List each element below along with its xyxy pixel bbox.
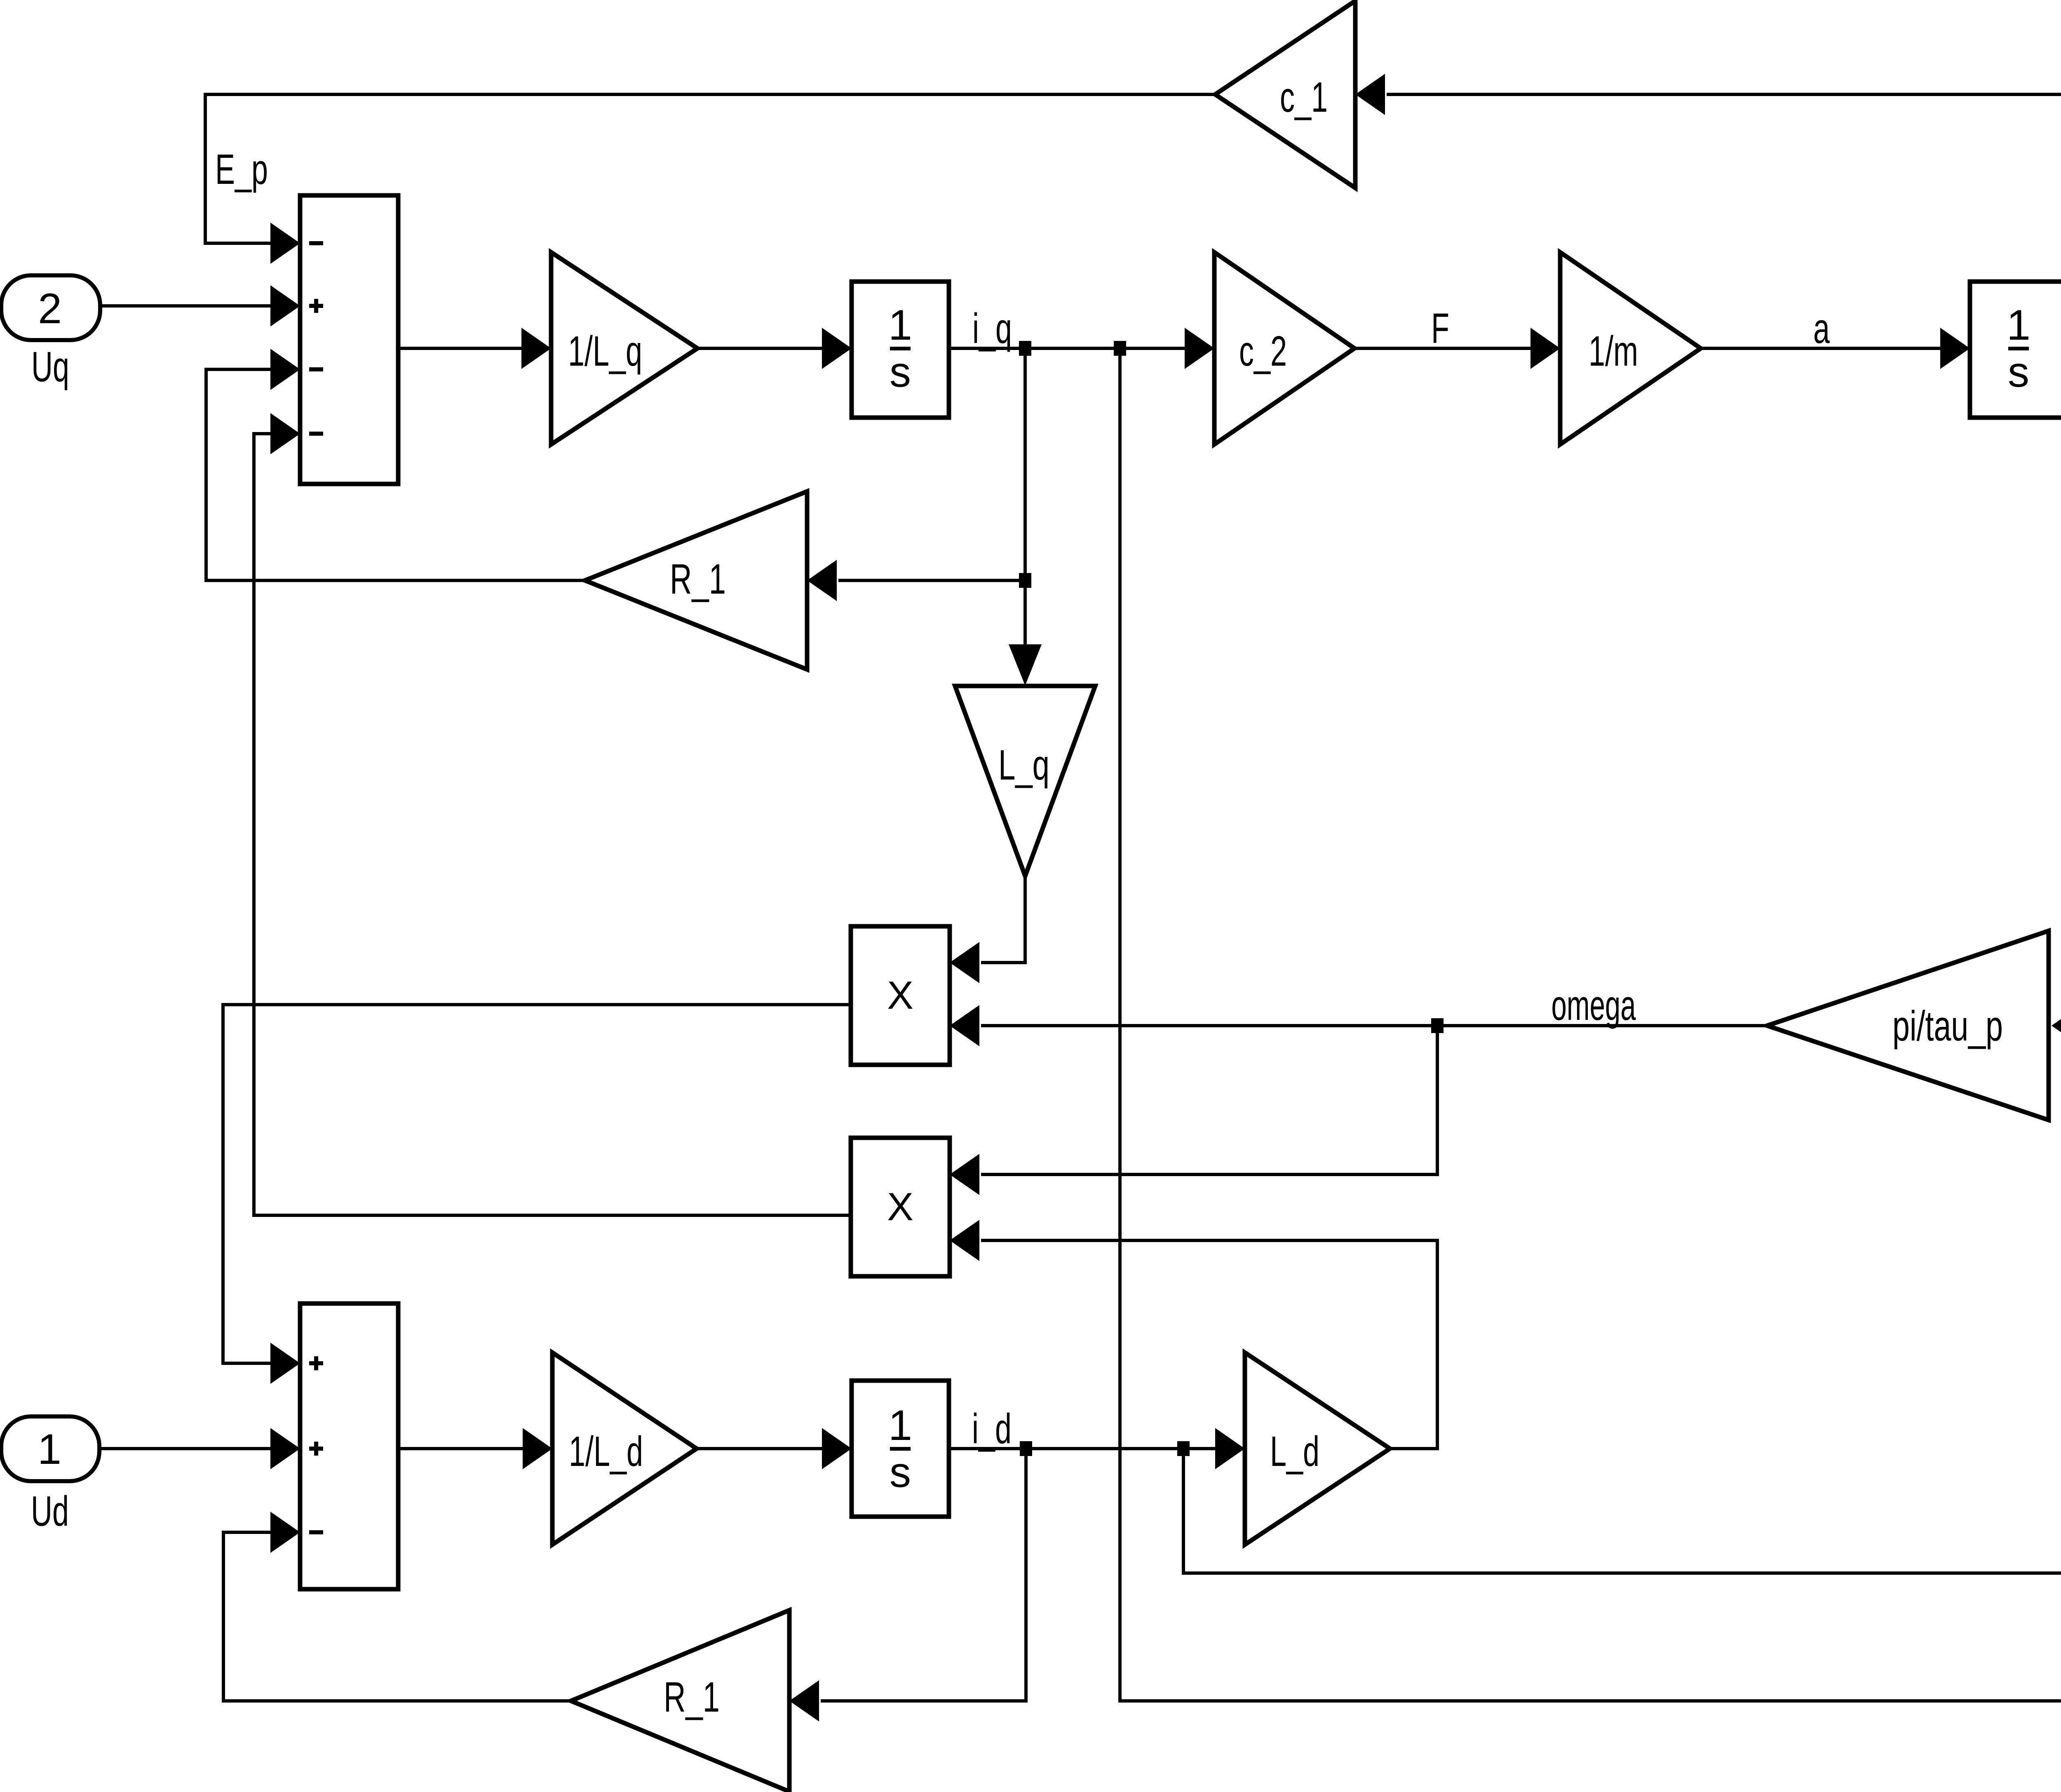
wire i_d down to R_1 lower	[789, 1449, 1026, 1722]
svg-text:s: s	[2008, 348, 2029, 396]
sign plus (input 1)	[309, 1356, 323, 1370]
wire i_d to mux I_dq	[1183, 1449, 2061, 1594]
sign minus (input 3)	[309, 367, 323, 371]
svg-text:Uq: Uq	[31, 343, 69, 390]
gain R_1 (lower)	[571, 1610, 789, 1792]
wire i_q to c_2	[949, 328, 1214, 369]
wire R_1 lower output to Sum2 input 3	[223, 1512, 571, 1701]
wire i_q long to mux I_dq	[1120, 348, 2061, 1722]
svg-text:Ud: Ud	[31, 1487, 69, 1535]
junction i_q / R_1 branch	[1019, 341, 1031, 356]
junction i_d / I_dq branch	[1177, 1441, 1190, 1456]
gain 1/L_d	[552, 1353, 697, 1545]
wire v down to pi/tau_p	[2052, 348, 2061, 1046]
svg-text:1/L_d: 1/L_d	[569, 1428, 643, 1475]
svg-text:R_1: R_1	[670, 555, 726, 603]
svg-text:1/L_q: 1/L_q	[568, 327, 642, 375]
gain L_d	[1245, 1353, 1390, 1545]
svg-text:1: 1	[888, 301, 912, 349]
svg-text:X: X	[887, 1185, 913, 1229]
svg-text:L_d: L_d	[1270, 1428, 1319, 1475]
wire E_p feedback from c_1 to Sum1	[205, 94, 1215, 264]
wire L_d loop to X2 input 2	[950, 1220, 1437, 1449]
svg-text:2: 2	[38, 285, 62, 333]
sign plus (input 2)	[309, 1442, 323, 1456]
svg-text:a: a	[1813, 305, 1830, 352]
svg-text:F: F	[1431, 305, 1449, 352]
junction omega	[1431, 1018, 1444, 1033]
wire omega branch to X2 input 1	[950, 1026, 1437, 1195]
input port 1 (Ud)	[1, 1416, 99, 1481]
wire a	[1701, 328, 1970, 369]
wire F	[1354, 328, 1560, 369]
junction i_q / I_dq branch	[1114, 341, 1126, 356]
svg-text:E_p: E_p	[215, 146, 268, 193]
sum block Sum2	[300, 1303, 398, 1589]
svg-text:c_1: c_1	[1280, 73, 1328, 121]
svg-text:1: 1	[38, 1426, 61, 1473]
gain pi/tau_p	[1767, 931, 2049, 1120]
svg-text:pi/tau_p: pi/tau_p	[1892, 1002, 2003, 1050]
sign minus (input 4)	[309, 432, 323, 436]
wire R_1 upper output to Sum1 input 3	[206, 349, 585, 580]
wire Uq to Sum1	[100, 285, 300, 326]
wire 1/L_d to integrator	[697, 1428, 852, 1469]
wire i_d to L_d	[949, 1428, 1245, 1469]
wire Sum2 to gain 1/L_d	[398, 1428, 552, 1469]
svg-text:s: s	[890, 1449, 911, 1496]
gain 1/m	[1560, 252, 1701, 444]
wire 1/L_q to integrator	[697, 328, 852, 369]
product X2	[851, 1138, 950, 1276]
product X1	[851, 926, 950, 1065]
svg-text:1: 1	[888, 1402, 912, 1449]
svg-text:R_1: R_1	[664, 1673, 720, 1721]
wire omega to X1	[950, 1005, 1767, 1046]
wire i_q down to R_1 upper	[807, 348, 1025, 601]
wire down into L_q	[1009, 580, 1042, 686]
svg-text:c_2: c_2	[1239, 327, 1287, 375]
wire L_q to X1 input 1	[950, 876, 1025, 983]
svg-text:i_d: i_d	[972, 1405, 1012, 1452]
wire X2 product output to Sum1 input 4	[254, 413, 851, 1215]
integrator 1/s (v)	[1970, 282, 2061, 418]
svg-text:X: X	[887, 973, 913, 1017]
gain R_1 (upper)	[585, 491, 807, 669]
junction R_1 / L_q branch	[1019, 573, 1031, 588]
gain c_1	[1215, 1, 1355, 188]
input port 2 (Uq)	[1, 275, 100, 340]
svg-text:i_q: i_q	[972, 305, 1012, 352]
wire v feedback up to c_1	[1355, 74, 2061, 348]
sum block Sum1	[300, 195, 398, 484]
sign minus (input 3)	[309, 1530, 323, 1534]
wire Sum1 to gain 1/L_q	[398, 328, 551, 369]
svg-text:L_q: L_q	[998, 741, 1049, 789]
svg-text:1/m: 1/m	[1589, 327, 1638, 375]
gain 1/L_q	[551, 252, 697, 444]
integrator 1/s (i_q)	[852, 282, 949, 418]
integrator 1/s (i_d)	[852, 1381, 949, 1517]
junction i_d / R_1 branch	[1020, 1441, 1032, 1456]
svg-text:s: s	[890, 348, 911, 396]
wire X1 output to Sum2 input 1	[223, 1005, 851, 1384]
sign minus (input 1)	[309, 241, 323, 245]
svg-text:1: 1	[2007, 301, 2030, 349]
gain c_2	[1214, 252, 1354, 444]
sign plus (input 2)	[309, 299, 323, 313]
wire Ud to Sum2	[99, 1428, 300, 1469]
gain L_q (pointing down)	[955, 686, 1095, 876]
svg-text:omega: omega	[1552, 982, 1636, 1029]
